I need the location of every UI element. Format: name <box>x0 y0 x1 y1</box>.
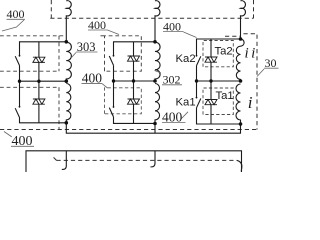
middle module 400 upper cell dashed box <box>101 36 142 71</box>
wire left switch branch middle segment <box>19 66 21 107</box>
svg-text:303: 303 <box>77 40 96 54</box>
wire bottom return conductor <box>66 123 240 133</box>
label 30 underline <box>264 67 279 69</box>
switch S1 fixed contact <box>19 55 21 57</box>
wire middle module bottom rail <box>114 117 156 124</box>
switch S3 blade (middle upper cell) <box>109 56 113 65</box>
left module 400 upper cell dashed box bottom edge <box>0 70 59 72</box>
left module 400 lower cell dashed box right edge <box>58 87 60 129</box>
switch S3 fixed contact <box>113 55 115 57</box>
junction node leg A / top rail <box>65 40 69 44</box>
left module 400 upper cell dashed box top edge <box>0 35 64 37</box>
wire middle switch branch middle segment <box>113 65 115 106</box>
wire middle thyristor branch bottom segment <box>133 104 135 123</box>
label 400 mid-left leader <box>102 84 108 88</box>
svg-text:Ka2: Ka2 <box>176 53 196 65</box>
label 303 leader <box>71 53 76 59</box>
inductor winding section ii <box>236 39 244 81</box>
lower transformer winding axis left end tick <box>53 157 57 161</box>
label 400 top-right leader <box>184 32 197 38</box>
label 400 top-left leader <box>2 20 24 31</box>
svg-text:ii: ii <box>245 46 258 62</box>
switch S1 blade (left upper cell) <box>15 56 19 65</box>
label 400 top-middle leader <box>108 30 120 35</box>
inductor 303 lower half <box>66 84 71 123</box>
wire middle thyristor branch upper segment <box>133 42 135 56</box>
junction node winding ii-i tap <box>239 79 243 83</box>
label 400 top-left underline <box>7 18 26 20</box>
thyristor pair VS1 (left upper cell) <box>33 57 45 62</box>
left module 400 lower cell dashed box top edge <box>0 86 59 88</box>
junction node leg B / top rail <box>153 40 157 44</box>
wire Ka switch branch middle segment <box>196 66 198 98</box>
lower transformer lead-in stub B <box>151 151 156 167</box>
wire middle thyristor branch lower segments <box>133 81 135 99</box>
wire Ta branch middle segment <box>210 62 212 99</box>
wire left module top rail <box>20 42 67 56</box>
dashed enclosure of upper transformer, right edge <box>253 0 255 18</box>
switch Ka1 fixed contact <box>196 97 198 99</box>
label 400 mid-bottom underline <box>162 122 186 124</box>
wire middle module middle bus <box>114 80 156 82</box>
lower transformer winding axis right end hook <box>237 160 242 171</box>
wire right module top rail <box>197 39 241 55</box>
left module 400 upper cell dashed box right edge <box>58 36 60 71</box>
label 400 mid-left underline <box>82 83 103 85</box>
thyristor module Ta2 dashed box <box>203 41 233 67</box>
wire right module middle bus <box>197 80 241 82</box>
svg-text:400: 400 <box>7 7 25 21</box>
wire left module bottom rail <box>20 118 67 123</box>
dashed segment above right module top rail <box>225 35 241 37</box>
svg-text:30: 30 <box>265 56 277 70</box>
dashed box 30 bottom edge <box>0 129 258 131</box>
junction node middle thyristor / middle bus <box>132 79 135 82</box>
thyristor pair Ta1 <box>205 100 217 105</box>
inductor top winding phase C <box>241 1 246 39</box>
dashed box 30 top-right corner <box>244 34 258 130</box>
junction node leg B / bottom rail <box>153 122 157 126</box>
label 302 leader <box>155 71 162 74</box>
wire Ta branch bottom segment <box>210 105 212 124</box>
label 302 underline <box>162 84 182 86</box>
thyristor pair VS2 (left lower cell) <box>33 99 45 104</box>
junction node inductor 302 tap <box>153 79 157 83</box>
label 400 top-right underline <box>163 31 184 33</box>
wire middle thyristor branch middle segment <box>133 61 135 81</box>
svg-text:Ta1: Ta1 <box>216 90 234 102</box>
svg-text:400: 400 <box>12 134 33 149</box>
svg-text:400: 400 <box>162 109 183 124</box>
junction node middle switch / middle bus <box>112 79 115 82</box>
wire left thyristor branch upper segment <box>38 42 40 57</box>
junction node left thyristor / middle bus <box>37 80 40 83</box>
wire middle module top rail <box>114 42 156 56</box>
junction node Ka / middle bus <box>195 79 198 82</box>
label 400 mid-bottom leader <box>181 112 188 119</box>
inductor top winding phase A <box>66 1 71 42</box>
lower transformer winding dashed axis <box>57 159 238 161</box>
dashed enclosure of upper transformer, bottom edge <box>50 17 253 19</box>
label 303 underline <box>76 51 98 53</box>
switch S4 blade (middle lower cell) <box>109 108 113 117</box>
thyristor pair VS3 (middle upper cell) <box>128 56 140 61</box>
wire left module middle bus <box>20 80 67 82</box>
junction node Ta / middle bus <box>209 79 212 82</box>
svg-text:i: i <box>248 93 253 112</box>
junction node leg C / bottom rail <box>239 122 243 126</box>
junction node left switch / middle bus <box>18 80 21 83</box>
switch Ka1 blade <box>197 99 201 108</box>
junction node inductor 303 tap <box>65 79 69 83</box>
switch Ka2 blade <box>197 56 201 65</box>
thyristor module Ta1 dashed box <box>203 88 233 115</box>
inductor 302 upper half <box>155 42 160 81</box>
inductor 303 upper half <box>66 42 71 81</box>
svg-text:Ta2: Ta2 <box>215 46 233 58</box>
middle module 400 lower cell dashed box <box>105 88 142 114</box>
label 400 bottom-left leader <box>4 132 12 137</box>
label 400 bottom-left underline <box>11 145 34 147</box>
svg-text:400: 400 <box>163 20 181 34</box>
wire left thyristor branch lower segment <box>38 104 40 123</box>
label 30 leader <box>257 69 264 77</box>
wire right module bottom rail <box>197 108 241 124</box>
lower transformer lead-in stub A <box>62 151 67 170</box>
thyristor pair Ta2 <box>205 57 217 62</box>
junction node leg C / top rail <box>239 37 243 41</box>
svg-text:302: 302 <box>163 73 181 87</box>
wire Ta branch upper segment <box>210 39 212 57</box>
switch S2 blade (left lower cell) <box>15 108 19 117</box>
inductor top winding phase B <box>155 1 160 42</box>
wire leg B to bottom return conductor <box>154 124 156 134</box>
inductor 302 lower half <box>155 84 160 124</box>
switch S4 fixed contact <box>113 106 115 108</box>
junction node leg A / bottom rail <box>65 121 69 125</box>
svg-text:Ka1: Ka1 <box>176 97 196 109</box>
inductor winding section i <box>236 84 240 124</box>
switch S2 fixed contact <box>19 106 21 108</box>
thyristor pair VS4 (middle lower cell) <box>128 99 140 104</box>
svg-text:400: 400 <box>82 70 103 85</box>
lower transformer tank outline <box>26 151 242 172</box>
dashed enclosure of upper transformer, left edge <box>50 0 52 18</box>
label 400 top-middle underline <box>88 29 108 31</box>
switch Ka2 fixed contact <box>196 55 198 57</box>
wire left thyristor branch middle segment <box>38 62 40 99</box>
svg-text:400: 400 <box>88 18 106 32</box>
